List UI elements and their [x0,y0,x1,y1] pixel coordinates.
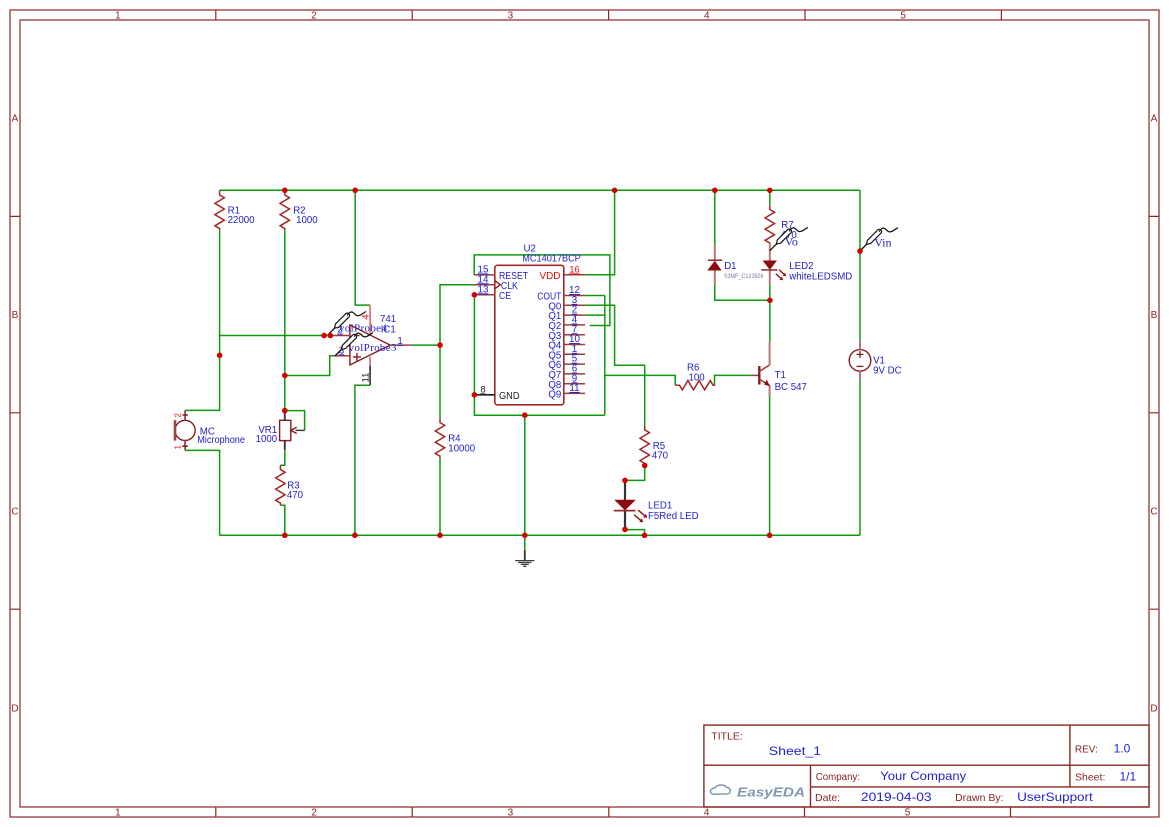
svg-text:1000: 1000 [256,434,278,445]
LED LED2 [761,243,852,285]
svg-text:1: 1 [174,445,183,450]
svg-text:A: A [12,114,19,125]
junction top rail R2 [282,188,288,194]
junction bottom rail R3 [282,533,288,539]
svg-text:Vin: Vin [874,235,891,249]
svg-text:volProbe3: volProbe3 [349,342,398,354]
svg-text:D1: D1 [724,261,736,272]
svg-text:Company:: Company: [816,771,860,783]
junction Vin [857,248,863,254]
wire node to microphone pin 2 [185,336,220,411]
svg-text:4: 4 [704,11,710,22]
wire COUT stub [585,295,605,297]
wire R2 to VR1 [284,230,286,410]
svg-text:UserSupport: UserSupport [1017,790,1093,804]
U2 pin 11 Q9 [564,392,585,394]
U2 pin 9 Q8 [564,383,585,385]
resistor R6 [675,363,715,390]
junction probe pin2 left [321,333,327,339]
svg-text:2: 2 [174,413,183,418]
svg-text:Drawn By:: Drawn By: [955,792,1003,804]
EasyEDA logo [710,785,805,799]
U2 pin 8 GND [474,394,495,396]
svg-text:100: 100 [689,372,706,383]
potentiometer VR1 [256,413,305,450]
U2 pin 3 Q0 [564,304,585,306]
svg-text:B: B [1151,310,1158,321]
wire T1 emitter to bottom rail [769,396,771,536]
junction top rail op-amp V+ [352,188,358,194]
svg-text:Q9: Q9 [548,390,561,401]
resistor R5 [640,426,669,466]
junction bottom rail R4 [437,533,443,539]
svg-text:VDD: VDD [540,271,561,282]
U2 pin 12 COUT [564,295,585,297]
svg-text:C: C [1150,507,1157,518]
U2 pin 4 Q2 [564,324,585,326]
svg-text:1.0: 1.0 [1114,742,1131,756]
svg-text:1/1: 1/1 [1120,769,1137,783]
wire op-amp V+ riser [355,190,370,305]
junction bottom rail op-amp V- [352,533,358,539]
svg-text:10000: 10000 [448,443,476,454]
svg-text:5: 5 [905,808,911,819]
wire VDD to top rail [585,190,615,274]
svg-text:2: 2 [311,11,317,22]
svg-text:MC14017BCP: MC14017BCP [522,254,581,265]
svg-text:Vo: Vo [785,234,798,248]
diode D1 [707,245,764,285]
wire VR1 wiper loop [285,411,305,431]
wire Q0 to R5 [585,305,645,425]
probe Vo [770,227,808,250]
wire Q1 stub [585,314,605,316]
wire node C to T1 collector [769,300,771,341]
U2 pin 15 RESET [474,274,495,276]
wire top rail to D1 [714,190,716,245]
resistor R3 [276,465,304,505]
junction R5 bottom [642,463,648,469]
svg-text:B: B [12,310,19,321]
LED LED1 [614,481,699,530]
U2 pin 14 CLK [474,284,495,286]
svg-text:REV:: REV: [1075,744,1098,756]
wire R3 to bottom rail [280,505,284,535]
svg-text:volProbe4: volProbe4 [339,323,388,335]
svg-text:470: 470 [652,450,669,461]
junction node A mic [217,353,223,359]
svg-text:5: 5 [900,11,906,22]
resistor R1 [215,191,255,231]
svg-text:Sheet:: Sheet: [1075,771,1105,783]
resistor R2 [280,191,318,231]
wire R6 to T1 base [715,375,751,385]
svg-text:16: 16 [569,264,580,275]
svg-text:1: 1 [115,11,121,22]
junction LED1 top [622,478,628,484]
ground [515,551,534,567]
wire R4 to bottom rail [439,458,441,535]
svg-text:470: 470 [287,490,304,501]
junction op-amp output [437,342,443,348]
svg-text:11: 11 [361,373,372,383]
svg-text:13: 13 [478,284,489,295]
wire op-amp output [411,344,440,346]
wire output to R4 [439,345,441,418]
IC U2 MC14017BCP [474,244,585,405]
svg-text:1000: 1000 [296,215,318,226]
junction bottom rail T1 [767,533,773,539]
wire top power rail [220,189,860,191]
wire R1 to op-amp pin 2 [220,230,334,335]
wire LED2 to node C [769,285,771,300]
svg-text:8: 8 [480,384,485,395]
title block [704,725,1149,807]
junction VR1 top [282,408,288,414]
wire microphone pin 1 to bottom rail [185,450,220,535]
svg-text:22000: 22000 [228,215,256,226]
svg-text:T1: T1 [775,370,786,381]
U2 pin 1 Q5 [564,353,585,355]
svg-text:2019-04-03: 2019-04-03 [861,790,932,804]
microphone MC [174,410,246,450]
junction top rail D1 [712,188,718,194]
junction node B [282,373,288,379]
resistor R7 [765,205,797,244]
svg-text:Microphone: Microphone [197,435,245,446]
svg-text:D: D [11,704,18,715]
svg-text:TITLE:: TITLE: [711,730,743,742]
wire right rail lower [859,380,861,535]
svg-text:11: 11 [569,383,579,394]
wire output to CLK [440,285,474,345]
voltage source V1 [849,340,901,380]
svg-text:Date:: Date: [815,792,840,804]
wire R5 to LED1 [625,466,645,481]
junction CE [472,292,478,298]
junction LED1 bottom [622,527,628,533]
junction top rail R7 [767,188,773,194]
wire to R6 [605,375,675,385]
wire LED1 to bottom rail [625,530,645,536]
svg-text:F5Red LED: F5Red LED [648,511,699,522]
svg-text:LED2: LED2 [789,261,813,272]
svg-text:1: 1 [115,808,121,819]
svg-text:Sheet_1: Sheet_1 [769,744,822,758]
svg-text:9V DC: 9V DC [873,366,902,377]
svg-text:GND: GND [499,391,520,402]
junction GND pin [472,392,478,398]
op-amp IC1 741 [334,306,411,386]
wire right rail upper [859,190,861,340]
wire D1 to node C [715,285,770,300]
svg-text:whiteLEDSMD: whiteLEDSMD [788,272,852,283]
svg-text:2: 2 [311,808,317,819]
wire VR1 to R3 [280,450,284,465]
svg-text:EasyEDA: EasyEDA [737,785,805,799]
svg-text:4: 4 [360,314,371,319]
svg-text:3: 3 [508,11,514,22]
junction bottom rail LED1 [642,533,648,539]
svg-text:3: 3 [508,808,514,819]
svg-text:S3MF_C123926: S3MF_C123926 [724,273,764,280]
probe volProbe3 [335,333,397,356]
resistor R4 [435,418,475,458]
probe Vin [860,228,898,251]
U2 pin 5 Q6 [564,363,585,365]
wire bottom ground rail [220,534,860,536]
transistor T1 [750,342,807,396]
svg-text:D: D [1150,704,1157,715]
wire ground stem [524,415,526,550]
U2 pin 7 Q3 [564,334,585,336]
U2 pin 10 Q4 [564,344,585,346]
wire RESET net [474,255,610,326]
wire CE-GND riser and under-IC run [474,295,604,415]
junction node C LED2 [767,298,773,304]
U2 pin 16 VDD [564,274,585,276]
junction probe pin2 right [328,333,334,339]
junction top rail VDD [612,188,618,194]
wire COUT riser [604,296,606,416]
wire op-amp pin 11 to bottom rail [355,385,370,535]
svg-text:C: C [11,507,18,518]
svg-text:CE: CE [499,291,511,302]
junction bottom rail ground [522,533,528,539]
U2 pin 2 Q1 [564,314,585,316]
wire top rail to R7 [769,190,771,205]
svg-text:1: 1 [397,336,402,347]
svg-text:4: 4 [704,808,710,819]
probe volProbe4 [328,312,388,335]
U2 pin 13 CE [474,294,495,296]
wire node B to op-amp pin 3 [285,356,334,376]
svg-text:BC 547: BC 547 [775,382,807,393]
svg-text:Your Company: Your Company [880,769,966,783]
svg-text:A: A [1151,114,1158,125]
junction ground stem top [522,412,528,418]
U2 pin 6 Q7 [564,373,585,375]
